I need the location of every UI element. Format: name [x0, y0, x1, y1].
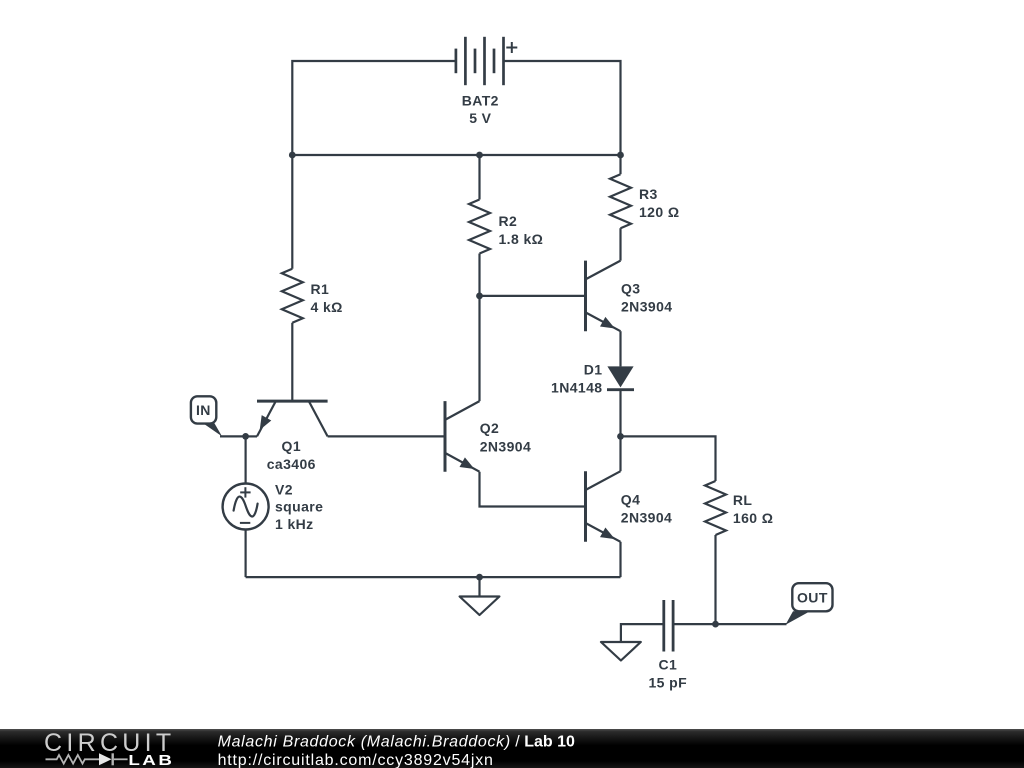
- node junction R2 top: [476, 152, 483, 159]
- svg-text:OUT: OUT: [797, 589, 828, 605]
- svg-text:V2: V2: [275, 481, 293, 497]
- svg-text:Q4: Q4: [621, 492, 640, 508]
- svg-text:BAT2: BAT2: [462, 93, 499, 109]
- svg-text:15 pF: 15 pF: [649, 674, 688, 690]
- CircuitLab logo resistor-diode squiggle: [46, 753, 128, 765]
- node junction base bus: [476, 293, 483, 300]
- wire base node to Q3 base: [480, 295, 586, 297]
- transistor Q3 value label: [621, 280, 672, 314]
- wire R3 to Q3 collector: [619, 228, 621, 260]
- wire base node to Q2 collector: [478, 296, 480, 401]
- transistor Q2: [445, 401, 480, 472]
- capacitor C1 value label: [649, 656, 688, 690]
- svg-text:1N4148: 1N4148: [551, 379, 602, 395]
- node junction R3 top: [617, 152, 624, 159]
- resistor RL: [705, 481, 726, 535]
- transistor Q1: [257, 401, 328, 436]
- diode D1 value label: [551, 362, 602, 396]
- battery polarity +: [506, 42, 517, 53]
- ground symbol at bus: [460, 577, 500, 615]
- node junction OUT: [712, 621, 719, 628]
- wire Q2 emitter to Q4 base: [480, 472, 586, 507]
- wire Q4 collector to output node: [619, 436, 621, 471]
- resistor R3: [610, 174, 631, 228]
- wire Q4 emitter to ground bus: [619, 542, 621, 577]
- svg-text:square: square: [275, 499, 323, 515]
- svg-text:http://circuitlab.com/ccy3892v: http://circuitlab.com/ccy3892v54jxn: [218, 752, 494, 768]
- resistor R1: [282, 269, 303, 323]
- voltage source V2: [223, 484, 269, 530]
- svg-text:R2: R2: [499, 213, 518, 229]
- wire C1 to ground: [621, 624, 664, 642]
- battery BAT2: [456, 37, 504, 85]
- svg-text:LAB: LAB: [128, 752, 174, 768]
- ground bus wire: [246, 576, 621, 578]
- svg-text:D1: D1: [584, 362, 603, 378]
- svg-text:C1: C1: [658, 656, 677, 672]
- voltage source V2 value label: [275, 481, 323, 532]
- flag OUT: [786, 583, 833, 625]
- wire IN to input node: [220, 435, 246, 437]
- battery BAT2 value label: [462, 93, 499, 126]
- transistor Q3: [586, 261, 621, 332]
- wire output node to RL: [621, 436, 716, 481]
- svg-text:2N3904: 2N3904: [621, 298, 672, 314]
- svg-text:R1: R1: [311, 281, 330, 297]
- wire D1 cathode to output node: [619, 390, 621, 437]
- transistor Q4 value label: [621, 492, 672, 526]
- svg-text:1 kHz: 1 kHz: [275, 516, 314, 532]
- wire Q1 collector to Q2 base: [328, 435, 445, 437]
- wire bus to R3: [619, 155, 621, 174]
- wire battery negative to left rail: [292, 61, 456, 155]
- transistor Q4: [586, 471, 621, 542]
- node junction D1 output: [617, 433, 624, 440]
- resistor R1 value label: [311, 281, 343, 315]
- resistor R3 value label: [639, 186, 679, 220]
- svg-text:5 V: 5 V: [469, 110, 491, 126]
- wire bus to R1: [291, 155, 293, 269]
- transistor Q1 value label: [267, 438, 316, 472]
- svg-text:Q2: Q2: [480, 420, 499, 436]
- wire V2 to ground bus: [245, 530, 247, 578]
- svg-text:2N3904: 2N3904: [480, 439, 531, 455]
- capacitor C1: [664, 600, 673, 652]
- svg-text:120 Ω: 120 Ω: [639, 204, 679, 220]
- svg-text:2N3904: 2N3904: [621, 509, 672, 525]
- flag IN: [191, 396, 222, 436]
- wire input node to V2: [245, 436, 247, 483]
- svg-text:Malachi Braddock (Malachi.Brad: Malachi Braddock (Malachi.Braddock) / La…: [218, 734, 575, 751]
- node junction left rail: [289, 152, 296, 159]
- footer bar: [0, 729, 1024, 768]
- node junction input: [242, 433, 249, 440]
- resistor R2 value label: [499, 213, 544, 247]
- wire battery positive to right rail: [504, 61, 621, 155]
- ground symbol at C1: [601, 642, 641, 661]
- node junction ground bus: [476, 574, 483, 581]
- svg-text:ca3406: ca3406: [267, 456, 316, 472]
- diode D1: [607, 366, 634, 389]
- wire R2 to base node: [478, 254, 480, 296]
- wire RL to C1 node: [714, 535, 716, 624]
- svg-text:IN: IN: [196, 402, 211, 418]
- resistor RL value label: [733, 492, 773, 526]
- svg-text:R3: R3: [639, 186, 658, 202]
- svg-text:4 kΩ: 4 kΩ: [311, 299, 343, 315]
- wire to OUT flag: [716, 623, 787, 625]
- power bus wire: [292, 154, 620, 156]
- svg-text:RL: RL: [733, 492, 753, 508]
- wire Q3 emitter to D1 anode: [619, 331, 621, 366]
- svg-text:1.8 kΩ: 1.8 kΩ: [499, 231, 544, 247]
- wire input node to Q1 emitter: [246, 435, 257, 437]
- resistor R2: [469, 200, 490, 254]
- svg-text:Q1: Q1: [282, 438, 301, 454]
- wire C1 to output node: [673, 623, 715, 625]
- wire R1 to Q1 base: [291, 323, 293, 401]
- transistor Q2 value label: [480, 420, 531, 454]
- wire bus to R2: [478, 155, 480, 200]
- svg-text:160 Ω: 160 Ω: [733, 510, 773, 526]
- svg-text:Q3: Q3: [621, 280, 640, 296]
